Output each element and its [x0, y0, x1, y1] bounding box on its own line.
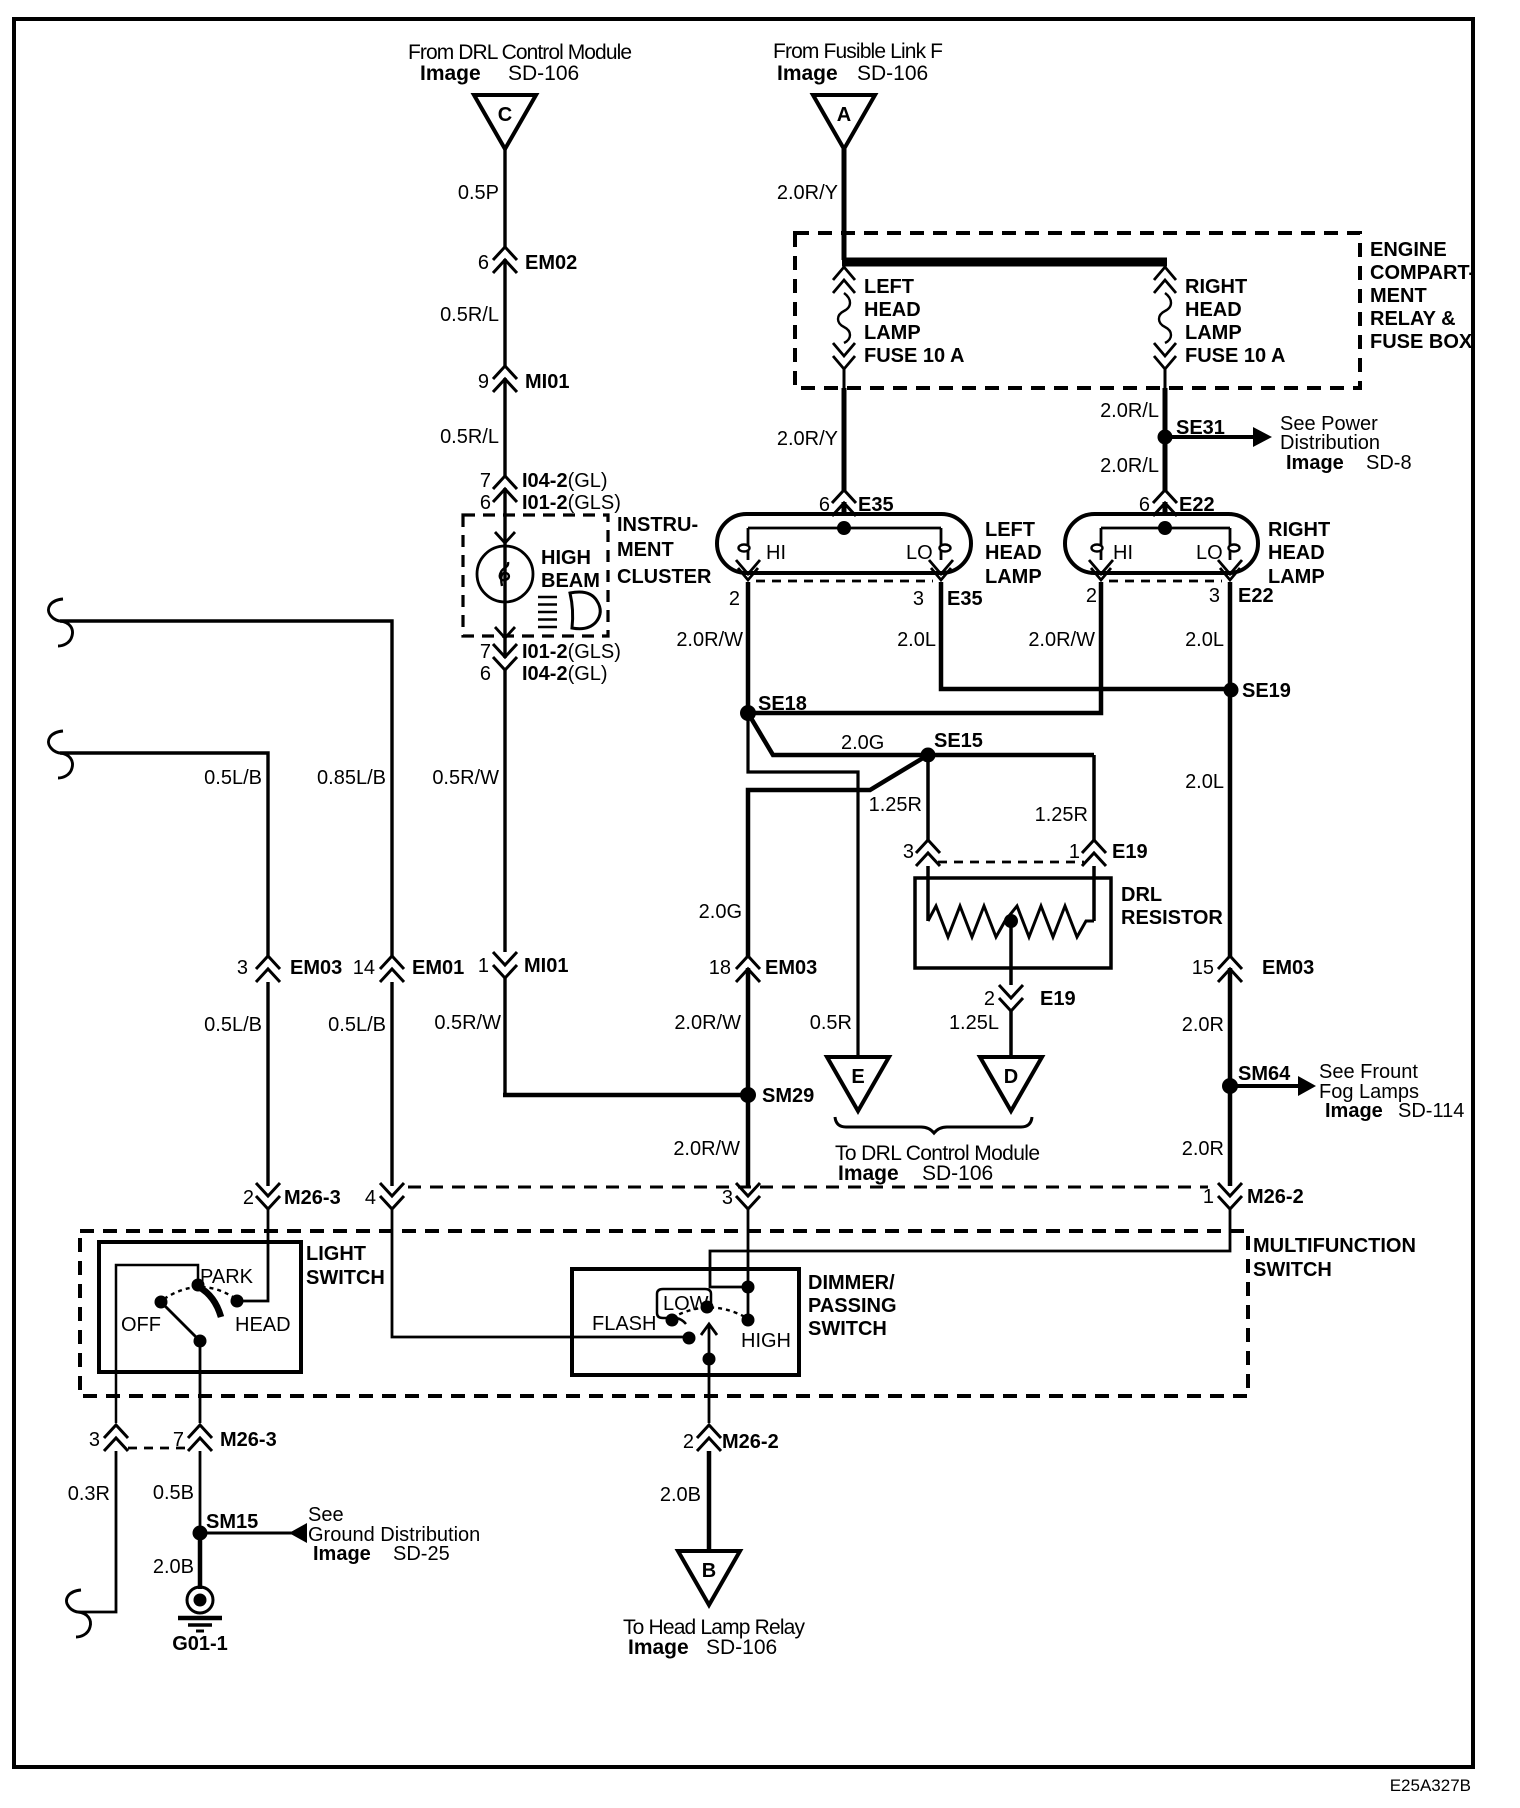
- brace under E and D: [835, 1117, 1032, 1133]
- connector 3 M26-3: [104, 1425, 128, 1451]
- junction SM15: [193, 1526, 208, 1541]
- svg-text:COMPART-: COMPART-: [1370, 262, 1475, 284]
- wire 1.25L to D: [1009, 1011, 1013, 1057]
- wire break hook upper: [48, 599, 72, 646]
- svg-text:RELAY &: RELAY &: [1370, 308, 1456, 330]
- junction SM64: [1222, 1078, 1238, 1094]
- svg-text:3: 3: [722, 1187, 733, 1209]
- svg-text:FLASH: FLASH: [592, 1313, 656, 1335]
- svg-text:Image: Image: [420, 62, 481, 85]
- svg-text:SD-106: SD-106: [706, 1636, 777, 1659]
- svg-text:From Fusible Link F: From Fusible Link F: [773, 40, 943, 63]
- connector 2 E19: [999, 985, 1023, 1011]
- svg-text:2.0B: 2.0B: [153, 1556, 194, 1578]
- svg-text:0.5R: 0.5R: [810, 1012, 852, 1034]
- dimmer lever arrow: [701, 1324, 717, 1356]
- svg-text:D: D: [1004, 1066, 1018, 1088]
- connector dashed line E19: [938, 861, 1084, 864]
- svg-text:0.5B: 0.5B: [153, 1482, 194, 1504]
- svg-text:E35: E35: [947, 588, 983, 610]
- svg-text:EM03: EM03: [1262, 957, 1314, 979]
- svg-text:3: 3: [1209, 585, 1220, 607]
- wire arrow into bulb: [495, 532, 515, 543]
- page connector D: [980, 1057, 1042, 1111]
- svg-text:SWITCH: SWITCH: [808, 1318, 887, 1340]
- svg-text:M26-2: M26-2: [1247, 1186, 1304, 1208]
- svg-text:DIMMER/: DIMMER/: [808, 1272, 895, 1294]
- resistor element: [928, 866, 1094, 921]
- svg-text:2: 2: [243, 1187, 254, 1209]
- wire pivot down to 2 M26-2: [708, 1359, 711, 1423]
- svg-text:M26-2: M26-2: [722, 1431, 779, 1453]
- connector 6 E22: [1153, 490, 1177, 516]
- page connector B: [678, 1551, 740, 1605]
- svg-text:2: 2: [683, 1431, 694, 1453]
- junction SM29: [740, 1087, 756, 1103]
- svg-text:LAMP: LAMP: [1185, 322, 1242, 344]
- svg-text:Image: Image: [628, 1636, 689, 1659]
- svg-text:2.0R/L: 2.0R/L: [1100, 400, 1159, 422]
- svg-text:HEAD: HEAD: [1185, 299, 1242, 321]
- lamp connector dashed E35: [756, 580, 933, 583]
- svg-text:0.5L/B: 0.5L/B: [204, 767, 262, 789]
- svg-text:SM64: SM64: [1238, 1063, 1291, 1085]
- page connector C: [474, 95, 536, 149]
- svg-text:DRL: DRL: [1121, 884, 1162, 906]
- svg-text:MI01: MI01: [524, 955, 568, 977]
- svg-text:E19: E19: [1112, 841, 1148, 863]
- svg-text:MI01: MI01: [525, 371, 569, 393]
- thick selector lever: [199, 1287, 221, 1317]
- svg-text:SD-106: SD-106: [922, 1162, 993, 1185]
- junction SE18: [740, 705, 756, 721]
- svg-text:14: 14: [353, 957, 375, 979]
- svg-text:See Frount: See Frount: [1319, 1061, 1418, 1083]
- svg-text:LAMP: LAMP: [864, 322, 921, 344]
- junction SE31: [1158, 430, 1173, 445]
- svg-text:E22: E22: [1238, 585, 1274, 607]
- svg-text:I04-2(GL): I04-2(GL): [522, 470, 608, 492]
- svg-text:MENT: MENT: [1370, 285, 1427, 307]
- svg-text:G01-1: G01-1: [172, 1633, 228, 1655]
- svg-text:0.3R: 0.3R: [68, 1483, 110, 1505]
- svg-text:E: E: [851, 1066, 864, 1088]
- svg-text:0.5R/W: 0.5R/W: [432, 767, 499, 789]
- svg-text:Image: Image: [1286, 452, 1344, 474]
- svg-text:1: 1: [1069, 841, 1080, 863]
- dashed dimmer arc: [672, 1308, 747, 1319]
- svg-text:HEAD: HEAD: [864, 299, 921, 321]
- svg-text:PASSING: PASSING: [808, 1295, 897, 1317]
- connector 18 EM03: [736, 956, 760, 982]
- svg-text:3: 3: [913, 588, 924, 610]
- wire 0.5P from C down: [503, 149, 506, 952]
- svg-text:HEAD: HEAD: [985, 542, 1042, 564]
- svg-text:2.0B: 2.0B: [660, 1484, 701, 1506]
- svg-text:A: A: [837, 104, 851, 126]
- svg-text:1.25R: 1.25R: [1035, 804, 1088, 826]
- svg-text:B: B: [702, 1560, 716, 1582]
- svg-text:2.0R: 2.0R: [1182, 1138, 1224, 1160]
- svg-text:HI: HI: [766, 542, 786, 564]
- svg-text:EM01: EM01: [412, 957, 464, 979]
- connector 7/6 I01-2(GLS) I04-2(GL) below cluster: [493, 644, 517, 670]
- left head lamp fuse 10A: [843, 267, 846, 388]
- svg-text:1.25R: 1.25R: [869, 794, 922, 816]
- svg-text:EM03: EM03: [765, 957, 817, 979]
- svg-text:M26-3: M26-3: [220, 1429, 277, 1451]
- svg-text:See: See: [308, 1504, 344, 1526]
- wire 2.0L left lamp LO to SE19: [941, 582, 1231, 689]
- svg-text:HI: HI: [1113, 542, 1133, 564]
- connector 4 M26-2: [380, 1183, 404, 1209]
- svg-text:BEAM: BEAM: [541, 570, 600, 592]
- svg-text:0.85L/B: 0.85L/B: [317, 767, 386, 789]
- wire from 3 M26-2 into HIGH contact: [747, 1209, 750, 1320]
- svg-text:2.0R/Y: 2.0R/Y: [777, 428, 838, 450]
- connector row dashed line M26-2: [408, 1186, 1208, 1189]
- svg-text:M26-3: M26-3: [284, 1187, 341, 1209]
- wire 1.25R SE15 down to E19 pin3: [926, 755, 930, 840]
- wire 0.5L/B below EM01: [390, 982, 393, 1186]
- svg-text:3: 3: [237, 957, 248, 979]
- svg-text:FUSE 10 A: FUSE 10 A: [864, 345, 964, 367]
- svg-text:HIGH: HIGH: [741, 1330, 791, 1352]
- connector 1 E19: [1082, 840, 1106, 866]
- svg-text:2.0R/W: 2.0R/W: [1028, 629, 1095, 651]
- svg-text:LEFT: LEFT: [985, 519, 1035, 541]
- connector 7/6 I04-2(GL) I01-2(GLS): [493, 476, 517, 502]
- ground G01-1: [187, 1587, 213, 1613]
- connector 3 EM03: [256, 956, 280, 982]
- svg-text:2.0G: 2.0G: [841, 732, 884, 754]
- svg-text:RIGHT: RIGHT: [1268, 519, 1330, 541]
- svg-text:LOW: LOW: [663, 1293, 709, 1315]
- connector 15 EM03: [1218, 956, 1242, 982]
- connector 1 M26-2: [1218, 1183, 1242, 1209]
- wire 0.5L/B from hook to EM03 column: [60, 753, 268, 956]
- svg-text:Distribution: Distribution: [1280, 432, 1380, 454]
- svg-text:0.5R/L: 0.5R/L: [440, 304, 499, 326]
- svg-text:SM29: SM29: [762, 1085, 814, 1107]
- connector 6 E35: [832, 490, 856, 516]
- svg-text:6: 6: [478, 252, 489, 274]
- svg-text:0.5R/L: 0.5R/L: [440, 426, 499, 448]
- svg-text:SE18: SE18: [758, 693, 807, 715]
- dashed selector arc: [164, 1287, 233, 1299]
- connector 3 M26-2: [736, 1183, 760, 1209]
- svg-text:2: 2: [729, 588, 740, 610]
- connector 2 M26-2: [697, 1425, 721, 1451]
- svg-text:LAMP: LAMP: [985, 566, 1042, 588]
- wire 2.0R/L right fuse to E22: [1163, 388, 1168, 516]
- dimmer contacts: [742, 1281, 755, 1294]
- junction SE19: [1224, 683, 1239, 698]
- svg-text:SWITCH: SWITCH: [306, 1267, 385, 1289]
- wire from resistor center tap: [1009, 921, 1013, 985]
- svg-text:SE15: SE15: [934, 730, 983, 752]
- high beam bulb: [477, 546, 533, 602]
- wire 2.0G SE18 to SE15: [748, 713, 928, 755]
- engine compartment relay & fuse box (dashed): [795, 233, 1360, 388]
- page connector E: [827, 1057, 889, 1111]
- multifunction switch dashed box: [80, 1231, 1248, 1396]
- svg-text:1.25L: 1.25L: [949, 1012, 999, 1034]
- page connector A: [813, 95, 875, 149]
- svg-text:HIGH: HIGH: [541, 547, 591, 569]
- svg-text:I01-2(GLS): I01-2(GLS): [522, 641, 621, 663]
- arrow to See Frount Fog Lamps: [1230, 1084, 1299, 1088]
- right head lamp fuse 10A: [1164, 267, 1167, 388]
- svg-text:15: 15: [1192, 957, 1214, 979]
- lever OFF to pivot: [161, 1302, 200, 1341]
- wire 2.0R/W left lamp HI down: [746, 582, 751, 713]
- connector 6 EM02: [493, 247, 517, 273]
- svg-text:1: 1: [1203, 1186, 1214, 1208]
- svg-text:RIGHT: RIGHT: [1185, 276, 1247, 298]
- wire 0.5L/B below EM03: [266, 982, 269, 1186]
- wire 2.0B to ground: [198, 1533, 203, 1589]
- svg-text:SD-25: SD-25: [393, 1543, 450, 1565]
- svg-text:I04-2(GL): I04-2(GL): [522, 663, 608, 685]
- svg-text:OFF: OFF: [121, 1314, 161, 1336]
- svg-text:SM15: SM15: [206, 1511, 258, 1533]
- svg-text:LAMP: LAMP: [1268, 566, 1325, 588]
- svg-text:SD-114: SD-114: [1398, 1100, 1464, 1122]
- lamp internal filaments: [837, 521, 851, 535]
- svg-text:2.0R: 2.0R: [1182, 1014, 1224, 1036]
- svg-text:I01-2(GLS): I01-2(GLS): [522, 492, 621, 514]
- svg-text:2.0R/L: 2.0R/L: [1100, 455, 1159, 477]
- wire from 4 M26-2 to FLASH contact: [392, 1209, 689, 1337]
- svg-text:2.0R/Y: 2.0R/Y: [777, 182, 838, 204]
- svg-text:0.5L/B: 0.5L/B: [328, 1014, 386, 1036]
- svg-text:RESISTOR: RESISTOR: [1121, 907, 1223, 929]
- svg-text:2.0L: 2.0L: [1185, 771, 1224, 793]
- svg-text:6: 6: [480, 492, 491, 514]
- svg-text:MENT: MENT: [617, 539, 674, 561]
- svg-text:EM02: EM02: [525, 252, 577, 274]
- connector 14 EM01: [380, 956, 404, 982]
- high beam indicator icon: [538, 592, 600, 629]
- svg-text:SD-106: SD-106: [508, 62, 579, 85]
- wire PARK contact to connector 3: [116, 1265, 198, 1423]
- LOW frame: [657, 1289, 711, 1324]
- bus bar: [842, 258, 1167, 267]
- svg-text:PARK: PARK: [200, 1266, 254, 1288]
- svg-text:1: 1: [478, 955, 489, 977]
- wire 2.0G SE15 to EM03 column: [748, 755, 928, 1186]
- wire 0.5R SE18 dogleg to E: [748, 713, 858, 1057]
- svg-text:3: 3: [903, 841, 914, 863]
- svg-text:2.0R/W: 2.0R/W: [676, 629, 743, 651]
- svg-text:EM03: EM03: [290, 957, 342, 979]
- arrow to See Power Distribution: [1165, 435, 1254, 439]
- wire 2.0R/W right lamp HI to SE18 bus: [748, 582, 1101, 713]
- wire break hook bottom: [66, 1590, 90, 1637]
- connector 2 M26-3: [256, 1183, 280, 1209]
- svg-text:Image: Image: [1325, 1100, 1383, 1122]
- svg-text:0.5R/W: 0.5R/W: [434, 1012, 501, 1034]
- svg-text:FUSE BOX: FUSE BOX: [1370, 331, 1473, 353]
- svg-text:18: 18: [709, 957, 731, 979]
- svg-text:2.0G: 2.0G: [699, 901, 742, 923]
- instrument cluster dashed box: [463, 515, 608, 636]
- svg-text:LIGHT: LIGHT: [306, 1243, 366, 1265]
- wire 2.0R/Y from A: [842, 149, 847, 260]
- svg-text:7: 7: [480, 470, 491, 492]
- junction SE15: [921, 748, 936, 763]
- svg-text:3: 3: [89, 1429, 100, 1451]
- svg-text:0.5L/B: 0.5L/B: [204, 1014, 262, 1036]
- svg-text:7: 7: [480, 641, 491, 663]
- svg-text:6: 6: [480, 663, 491, 685]
- wire 0.85L/B from hook to EM01 column: [60, 621, 392, 956]
- wire 0.5B: [199, 1451, 202, 1533]
- svg-text:LEFT: LEFT: [864, 276, 914, 298]
- svg-text:FUSE 10 A: FUSE 10 A: [1185, 345, 1285, 367]
- svg-text:ENGINE: ENGINE: [1370, 239, 1447, 261]
- svg-text:0.5P: 0.5P: [458, 182, 499, 204]
- svg-text:2: 2: [984, 988, 995, 1010]
- svg-text:E19: E19: [1040, 988, 1076, 1010]
- connector 9 MI01: [493, 366, 517, 392]
- connector 3 E19: [916, 840, 940, 866]
- svg-text:2.0R/W: 2.0R/W: [673, 1138, 740, 1160]
- svg-text:2.0R/W: 2.0R/W: [674, 1012, 741, 1034]
- wire 0.3R: [78, 1451, 116, 1612]
- wire break hook lower: [48, 731, 72, 778]
- wire from 1 M26-2 loop to HIGH junction: [710, 1209, 1230, 1287]
- svg-text:2: 2: [1086, 585, 1097, 607]
- svg-text:C: C: [498, 104, 512, 126]
- DRL resistor box: [915, 878, 1111, 968]
- svg-text:Image: Image: [838, 1162, 899, 1185]
- connector 7 M26-3: [188, 1425, 212, 1451]
- svg-text:SWITCH: SWITCH: [1253, 1259, 1332, 1281]
- lamp connector dashed E22: [1109, 580, 1222, 583]
- svg-text:INSTRU-: INSTRU-: [617, 514, 698, 536]
- svg-text:MULTIFUNCTION: MULTIFUNCTION: [1253, 1235, 1416, 1257]
- wire 1.25R SE15 right to E19 pin1: [928, 753, 1094, 758]
- wire into light switch HEAD contact: [239, 1209, 268, 1301]
- svg-text:Image: Image: [313, 1543, 371, 1565]
- arrow to See Ground Distribution: [200, 1532, 292, 1535]
- wire 2.0R/Y left fuse to E35: [842, 388, 847, 516]
- svg-text:E25A327B: E25A327B: [1390, 1776, 1471, 1795]
- svg-text:Image: Image: [777, 62, 838, 85]
- svg-text:From DRL Control Module: From DRL Control Module: [408, 41, 632, 64]
- wire pivot down to connector 7: [199, 1341, 202, 1423]
- svg-text:2.0L: 2.0L: [897, 629, 936, 651]
- wire 2.0B to B: [707, 1451, 712, 1551]
- svg-text:SE19: SE19: [1242, 680, 1291, 702]
- connector dashed line M26-3: [128, 1447, 188, 1450]
- svg-text:HEAD: HEAD: [1268, 542, 1325, 564]
- svg-text:HEAD: HEAD: [235, 1314, 291, 1336]
- svg-text:9: 9: [478, 371, 489, 393]
- light switch contacts: [155, 1296, 168, 1309]
- wire arrow out of bulb: [495, 627, 515, 638]
- svg-text:2.0L: 2.0L: [1185, 629, 1224, 651]
- wire 2.0L right lamp LO down: [1228, 582, 1233, 1186]
- svg-text:CLUSTER: CLUSTER: [617, 566, 712, 588]
- svg-text:SD-106: SD-106: [857, 62, 928, 85]
- connector 1 MI01: [493, 952, 517, 978]
- svg-text:4: 4: [365, 1187, 376, 1209]
- svg-text:SD-8: SD-8: [1366, 452, 1412, 474]
